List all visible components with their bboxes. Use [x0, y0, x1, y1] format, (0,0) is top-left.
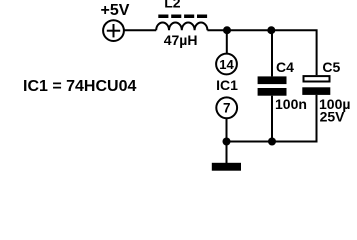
- svg-text:25V: 25V: [320, 109, 346, 125]
- svg-text:7: 7: [223, 101, 231, 116]
- svg-text:47µH: 47µH: [164, 32, 198, 48]
- svg-text:C4: C4: [276, 59, 294, 75]
- svg-text:L2: L2: [164, 0, 181, 11]
- svg-text:IC1 = 74HCU04: IC1 = 74HCU04: [23, 78, 136, 95]
- svg-text:+5V: +5V: [101, 2, 130, 19]
- svg-text:C5: C5: [322, 59, 340, 75]
- svg-text:14: 14: [219, 57, 234, 72]
- svg-text:IC1: IC1: [216, 77, 238, 93]
- svg-text:100n: 100n: [275, 96, 307, 112]
